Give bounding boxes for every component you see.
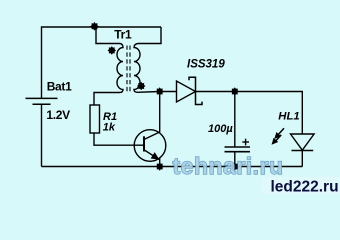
transistor Q1 collector diagonal	[144, 132, 160, 140]
svg-text:tehnari.ru: tehnari.ru	[173, 153, 284, 179]
wire winding bottom-right to collector node	[138, 91, 160, 94]
transformer Tr1 label-box left edge	[96, 27, 120, 44]
transistor Q1 emitter arrowhead	[151, 152, 160, 160]
wire bottom rail	[42, 166, 303, 168]
diode VD1 ISS319 triangle	[177, 81, 196, 102]
capacitor C1 plus sign	[242, 139, 249, 146]
LED HL1 emission arrow 2	[274, 135, 281, 143]
svg-text:Bat1: Bat1	[47, 79, 72, 93]
svg-text:1k: 1k	[103, 121, 116, 133]
svg-text:HL1: HL1	[278, 111, 299, 123]
transformer Tr1 core dashed lines	[126, 46, 128, 93]
phase dot primary winding	[108, 46, 117, 55]
svg-text:1.2V: 1.2V	[46, 108, 70, 122]
LED HL1 emission arrow 1	[277, 128, 284, 136]
svg-text:100µ: 100µ	[208, 123, 233, 135]
wire collector up to node	[159, 92, 161, 133]
junction node emitter/bottom rail	[155, 162, 164, 171]
LED HL1 cathode bar	[292, 150, 314, 152]
resistor R1 body	[90, 105, 100, 133]
wire LED cathode to bottom rail	[301, 151, 303, 167]
transformer Tr1 label-box right edge	[138, 27, 161, 44]
transformer Tr1 secondary winding (right)	[134, 44, 140, 93]
transistor Q1 emitter diagonal	[144, 150, 159, 160]
wire top rail battery+ to Tr1 box	[42, 27, 162, 98]
junction node capacitor bottom	[231, 162, 240, 171]
svg-text:led222.ru: led222.ru	[271, 178, 339, 195]
LED arrowhead 2	[272, 138, 279, 145]
battery Bat1 long plate	[26, 97, 58, 99]
phase dot secondary winding	[137, 82, 146, 91]
wire capacitor bottom lead	[234, 152, 236, 167]
wire diode cathode to LED corner	[196, 92, 303, 135]
wire capacitor top lead	[234, 92, 236, 148]
capacitor C1 bottom plate	[225, 151, 251, 153]
transistor Q1 base bar	[143, 136, 145, 151]
wire R1 bottom to transistor base	[94, 133, 144, 145]
LED HL1 triangle	[291, 134, 315, 150]
junction node capacitor top	[231, 87, 240, 96]
wire winding bottom-left to resistor R1 top	[94, 93, 120, 106]
transformer Tr1 primary winding (left)	[117, 44, 123, 93]
led222.ru background strip	[262, 177, 340, 194]
diode VD1 schottky cathode bar	[189, 77, 202, 104]
LED arrowhead 1	[274, 132, 281, 139]
battery Bat1 short plate	[33, 103, 51, 105]
svg-text:Tr1: Tr1	[114, 28, 132, 42]
wire emitter down to bottom rail	[159, 158, 161, 167]
transistor Q1 circle	[134, 130, 166, 162]
wire collector node to diode anode	[160, 91, 177, 93]
wire left lower: battery- down to bottom rail	[41, 104, 43, 166]
junction node battery+/Tr1	[90, 22, 99, 31]
svg-text:ISS319: ISS319	[187, 58, 225, 70]
junction node collector/diode	[155, 87, 164, 96]
capacitor C1 top plate	[225, 146, 251, 148]
